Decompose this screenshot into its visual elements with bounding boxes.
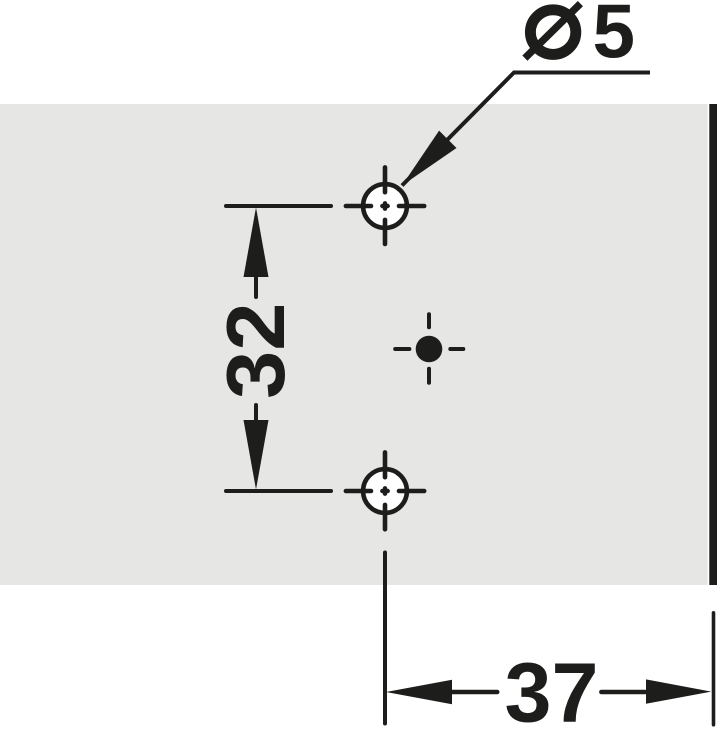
dim 32 line lower [254,405,258,421]
hole top (Ø5 drilling) [346,167,424,244]
dim 32 extension line bottom [226,489,331,493]
dim 32 arrow down [244,420,269,490]
hole bottom (Ø5 drilling) [346,452,424,529]
leader arrowhead [402,131,457,186]
label Ø5 : O of diameter symbol [530,10,575,55]
dim 37 line right [601,690,645,695]
hole axis extension line (down to dim 37) [383,553,387,724]
panel (cabinet side, grey) [0,104,708,585]
dim 37 arrow left [386,680,452,704]
label Ø5 : slash of diameter symbol [525,4,581,59]
dim 32 line upper [254,276,258,297]
dim 37 line left [451,690,497,695]
svg-text:37: 37 [505,646,599,730]
dim 37 arrow right [646,679,711,703]
panel front edge (black band) [709,104,717,585]
hole bottom centre dot (small cross) [382,488,387,493]
svg-text:32: 32 [209,303,302,399]
dim 32 arrow up [244,208,269,278]
svg-text:5: 5 [593,0,636,74]
dim 32 extension line top [226,204,331,208]
leader line for Ø5 [402,73,650,186]
panel edge extension line (below panel, right) [712,613,716,725]
centre mark (hinge cup axis point) [395,314,463,382]
hole top centre dot (small cross) [382,203,387,208]
